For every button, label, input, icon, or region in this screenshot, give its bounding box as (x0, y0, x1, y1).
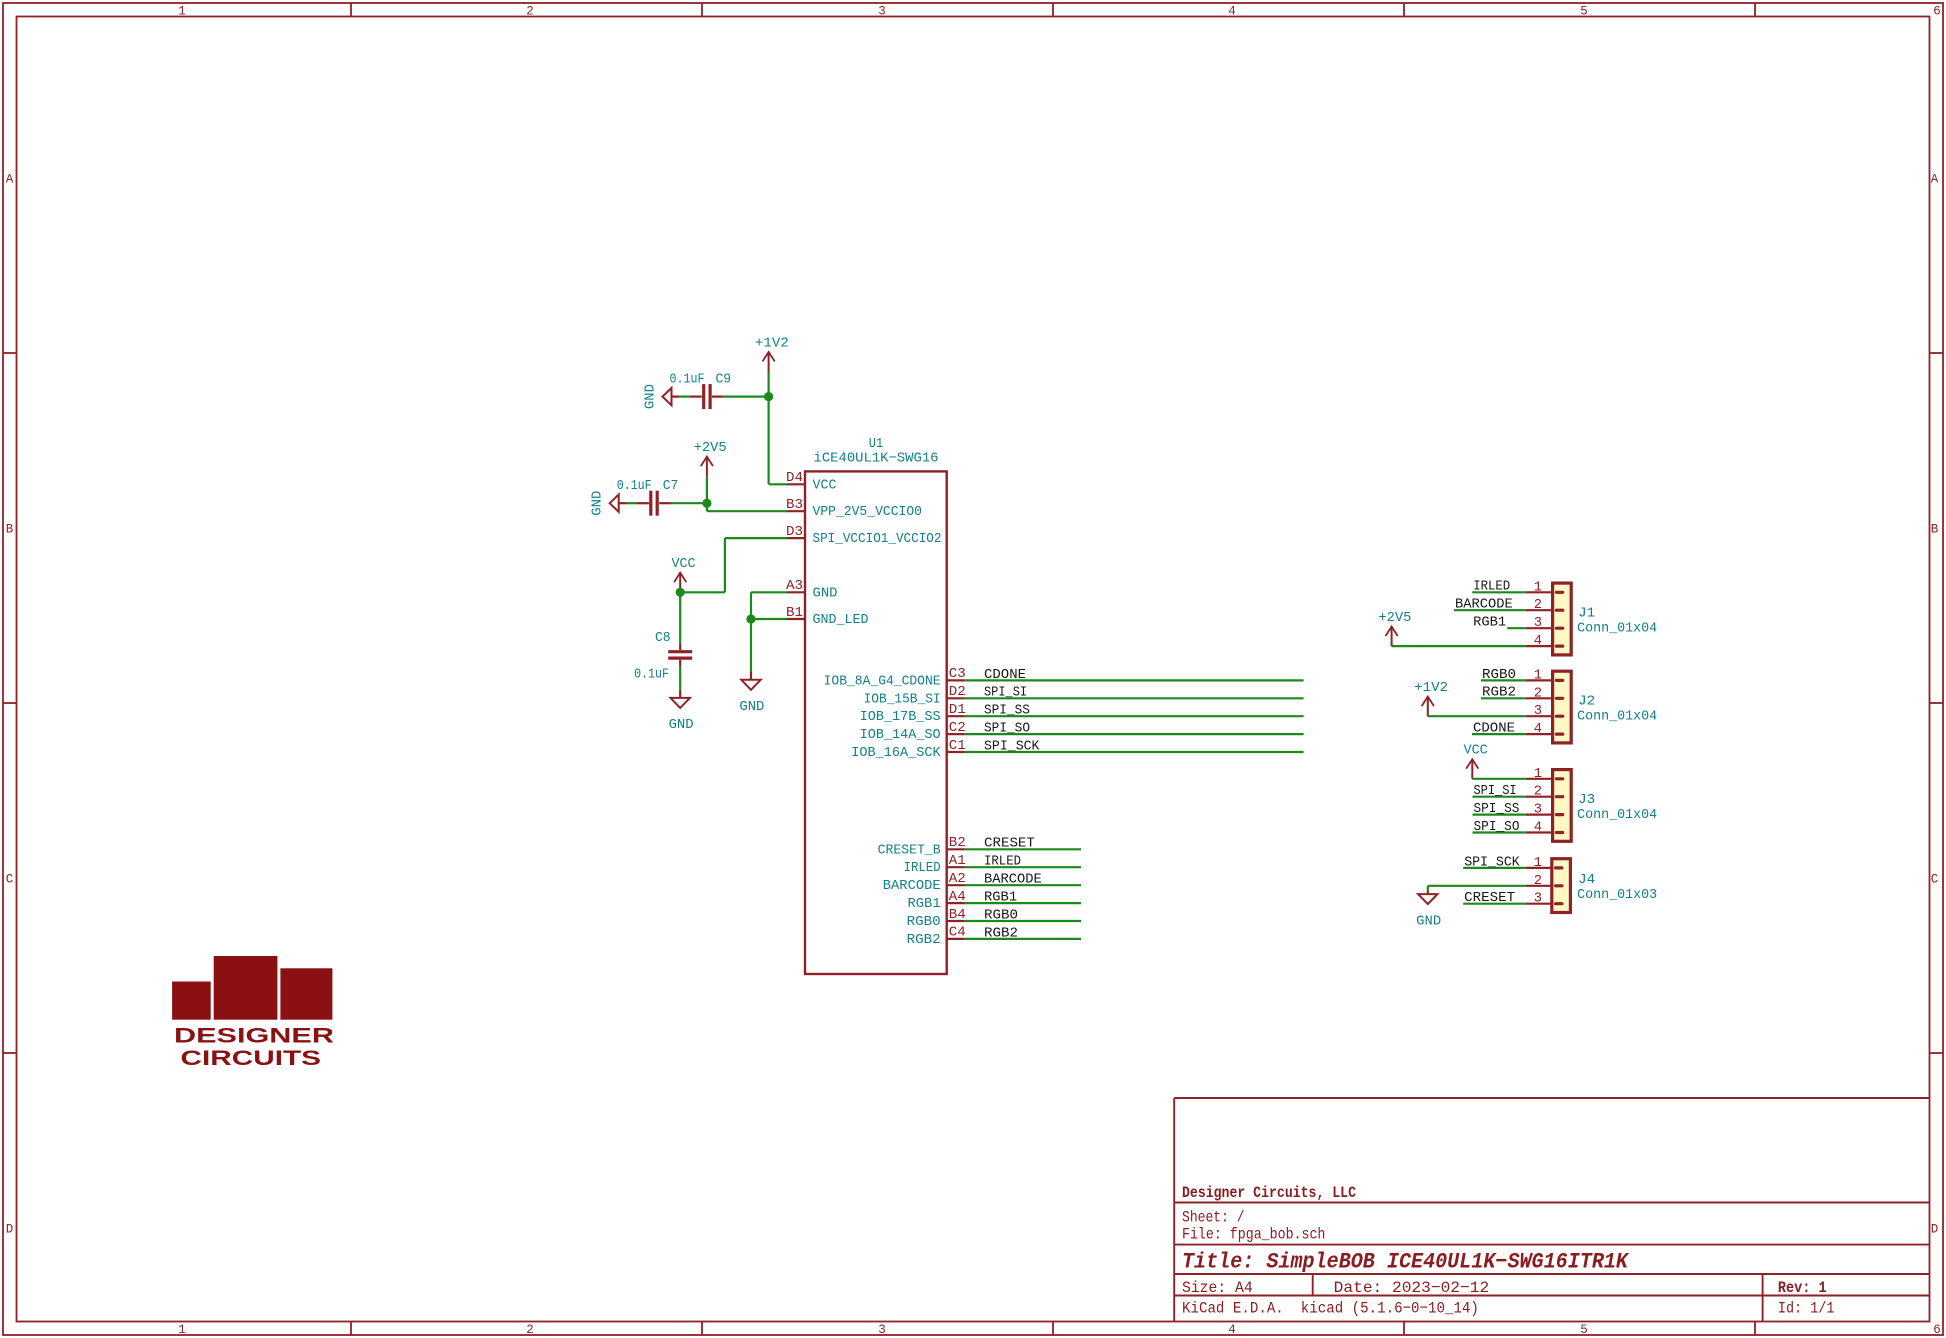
svg-text:SPI_SO: SPI_SO (1474, 820, 1520, 835)
svg-text:RGB1: RGB1 (1473, 616, 1506, 631)
svg-text:J1: J1 (1578, 606, 1595, 621)
svg-text:2: 2 (1534, 598, 1542, 613)
svg-text:D: D (1931, 1223, 1939, 1237)
svg-text:SPI_SI: SPI_SI (1474, 784, 1517, 799)
svg-text:+1V2: +1V2 (1414, 681, 1448, 696)
svg-text:BARCODE: BARCODE (883, 879, 941, 894)
svg-text:B2: B2 (949, 836, 966, 851)
svg-text:+2V5: +2V5 (694, 441, 727, 456)
svg-text:1: 1 (1534, 856, 1542, 871)
svg-text:Conn_01x04: Conn_01x04 (1577, 808, 1657, 823)
svg-text:RGB2: RGB2 (984, 926, 1018, 941)
svg-text:C4: C4 (949, 926, 966, 941)
svg-text:IRLED: IRLED (1473, 580, 1510, 595)
svg-text:4: 4 (1534, 634, 1542, 649)
svg-text:1: 1 (1534, 767, 1542, 782)
svg-text:GND: GND (739, 700, 764, 715)
svg-text:1: 1 (1534, 668, 1542, 683)
svg-text:D: D (6, 1223, 14, 1237)
svg-text:2: 2 (526, 5, 534, 19)
svg-text:C8: C8 (655, 631, 671, 646)
svg-text:J4: J4 (1578, 873, 1595, 888)
svg-text:VCC: VCC (813, 478, 837, 493)
svg-text:C3: C3 (949, 667, 966, 682)
svg-text:U1: U1 (869, 437, 883, 452)
svg-text:RGB1: RGB1 (908, 897, 941, 912)
svg-text:RGB0: RGB0 (1482, 668, 1516, 683)
svg-text:D3: D3 (786, 525, 803, 540)
svg-text:Date: 2023−02−12: Date: 2023−02−12 (1334, 1279, 1490, 1297)
svg-text:5: 5 (1580, 5, 1588, 19)
svg-text:Conn_01x04: Conn_01x04 (1577, 621, 1657, 636)
svg-text:C: C (6, 873, 14, 887)
svg-text:A3: A3 (786, 579, 803, 594)
svg-text:D1: D1 (949, 703, 966, 718)
svg-text:D4: D4 (786, 471, 803, 486)
svg-text:1: 1 (178, 5, 186, 19)
svg-text:KiCad E.D.A. kicad (5.1.6−0−1: KiCad E.D.A. kicad (5.1.6−0−10_14) (1182, 1300, 1479, 1318)
svg-text:A: A (6, 173, 14, 187)
svg-text:3: 3 (1534, 803, 1542, 818)
svg-text:2: 2 (526, 1323, 534, 1337)
svg-text:3: 3 (1534, 704, 1542, 719)
svg-text:BARCODE: BARCODE (984, 873, 1042, 888)
svg-text:GND: GND (1416, 914, 1441, 929)
svg-text:Id: 1/1: Id: 1/1 (1778, 1300, 1835, 1318)
svg-text:4: 4 (1534, 722, 1542, 737)
svg-text:2: 2 (1534, 785, 1542, 800)
svg-text:Conn_01x04: Conn_01x04 (1577, 710, 1657, 725)
svg-text:IRLED: IRLED (984, 855, 1021, 870)
svg-text:0.1uF: 0.1uF (634, 667, 669, 682)
svg-text:Size: A4: Size: A4 (1182, 1279, 1253, 1297)
svg-text:+1V2: +1V2 (755, 336, 789, 351)
svg-text:RGB2: RGB2 (1482, 686, 1516, 701)
svg-text:BARCODE: BARCODE (1455, 598, 1513, 613)
svg-text:SPI_SCK: SPI_SCK (984, 739, 1040, 754)
svg-text:Rev: 1: Rev: 1 (1778, 1279, 1827, 1297)
svg-text:A: A (1931, 173, 1939, 187)
svg-text:SPI_SCK: SPI_SCK (1464, 855, 1520, 870)
svg-text:IOB_15B_SI: IOB_15B_SI (864, 692, 941, 707)
svg-text:Sheet: /: Sheet: / (1182, 1209, 1245, 1227)
svg-text:C2: C2 (949, 721, 966, 736)
svg-text:File: fpga_bob.sch: File: fpga_bob.sch (1182, 1226, 1325, 1244)
svg-text:IOB_16A_SCK: IOB_16A_SCK (851, 746, 941, 761)
svg-text:VCC: VCC (1464, 744, 1488, 759)
svg-text:3: 3 (1534, 892, 1542, 907)
svg-text:CRESET: CRESET (1464, 891, 1515, 906)
svg-text:IOB_8A_G4_CDONE: IOB_8A_G4_CDONE (824, 674, 941, 689)
svg-text:3: 3 (878, 1323, 886, 1337)
svg-text:J3: J3 (1578, 793, 1595, 808)
svg-text:+2V5: +2V5 (1378, 611, 1411, 626)
svg-text:GND: GND (591, 491, 606, 516)
svg-text:6: 6 (1933, 5, 1941, 19)
svg-text:C: C (1931, 873, 1939, 887)
svg-text:B3: B3 (786, 498, 803, 513)
svg-text:J2: J2 (1578, 694, 1595, 709)
svg-text:CDONE: CDONE (1473, 722, 1515, 737)
svg-text:5: 5 (1580, 1323, 1588, 1337)
svg-text:RGB1: RGB1 (984, 891, 1017, 906)
svg-text:Conn_01x03: Conn_01x03 (1577, 888, 1657, 903)
svg-text:GND_LED: GND_LED (813, 613, 869, 628)
svg-text:iCE40UL1K−SWG16: iCE40UL1K−SWG16 (814, 450, 939, 466)
svg-text:SPI_SI: SPI_SI (984, 686, 1027, 701)
svg-text:SPI_VCCIO1_VCCIO2: SPI_VCCIO1_VCCIO2 (813, 532, 942, 547)
svg-text:B1: B1 (786, 606, 803, 621)
svg-text:DESIGNER: DESIGNER (174, 1024, 335, 1048)
svg-text:A2: A2 (949, 872, 966, 887)
svg-text:Title: SimpleBOB ICE40UL1K−SWG: Title: SimpleBOB ICE40UL1K−SWG16ITR1K (1182, 1248, 1630, 1274)
svg-text:SPI_SO: SPI_SO (984, 722, 1030, 737)
svg-text:0.1uF: 0.1uF (670, 372, 705, 387)
svg-text:C9: C9 (716, 372, 732, 387)
svg-text:GND: GND (644, 384, 659, 409)
svg-text:IRLED: IRLED (904, 861, 941, 876)
svg-text:1: 1 (1534, 580, 1542, 595)
svg-text:B: B (6, 523, 14, 537)
svg-text:RGB0: RGB0 (984, 908, 1018, 923)
svg-text:RGB2: RGB2 (907, 933, 941, 948)
svg-text:VCC: VCC (672, 557, 696, 572)
svg-text:C7: C7 (663, 479, 679, 494)
svg-text:IOB_17B_SS: IOB_17B_SS (860, 710, 941, 725)
svg-text:GND: GND (813, 586, 838, 601)
svg-text:6: 6 (1933, 1323, 1941, 1337)
svg-text:A4: A4 (949, 890, 966, 905)
svg-text:A1: A1 (949, 854, 966, 869)
svg-text:IOB_14A_SO: IOB_14A_SO (860, 728, 941, 743)
svg-text:B4: B4 (949, 908, 966, 923)
svg-text:1: 1 (178, 1323, 186, 1337)
svg-text:0.1uF: 0.1uF (617, 479, 652, 494)
svg-text:C1: C1 (949, 739, 966, 754)
svg-text:D2: D2 (949, 685, 966, 700)
svg-text:4: 4 (1228, 1323, 1236, 1337)
svg-text:CDONE: CDONE (984, 668, 1026, 683)
svg-text:SPI_SS: SPI_SS (984, 704, 1030, 719)
svg-text:3: 3 (878, 5, 886, 19)
svg-text:CRESET_B: CRESET_B (878, 843, 941, 858)
svg-text:4: 4 (1228, 5, 1236, 19)
svg-text:4: 4 (1534, 821, 1542, 836)
svg-text:RGB0: RGB0 (907, 915, 941, 930)
svg-text:SPI_SS: SPI_SS (1474, 802, 1520, 817)
svg-text:3: 3 (1534, 616, 1542, 631)
svg-text:CRESET: CRESET (984, 837, 1035, 852)
svg-text:GND: GND (669, 718, 694, 733)
svg-text:B: B (1931, 523, 1939, 537)
svg-text:2: 2 (1534, 686, 1542, 701)
svg-text:Designer Circuits, LLC: Designer Circuits, LLC (1182, 1184, 1356, 1202)
svg-text:VPP_2V5_VCCIO0: VPP_2V5_VCCIO0 (813, 505, 923, 520)
svg-text:CIRCUITS: CIRCUITS (181, 1046, 322, 1070)
svg-text:2: 2 (1534, 874, 1542, 889)
